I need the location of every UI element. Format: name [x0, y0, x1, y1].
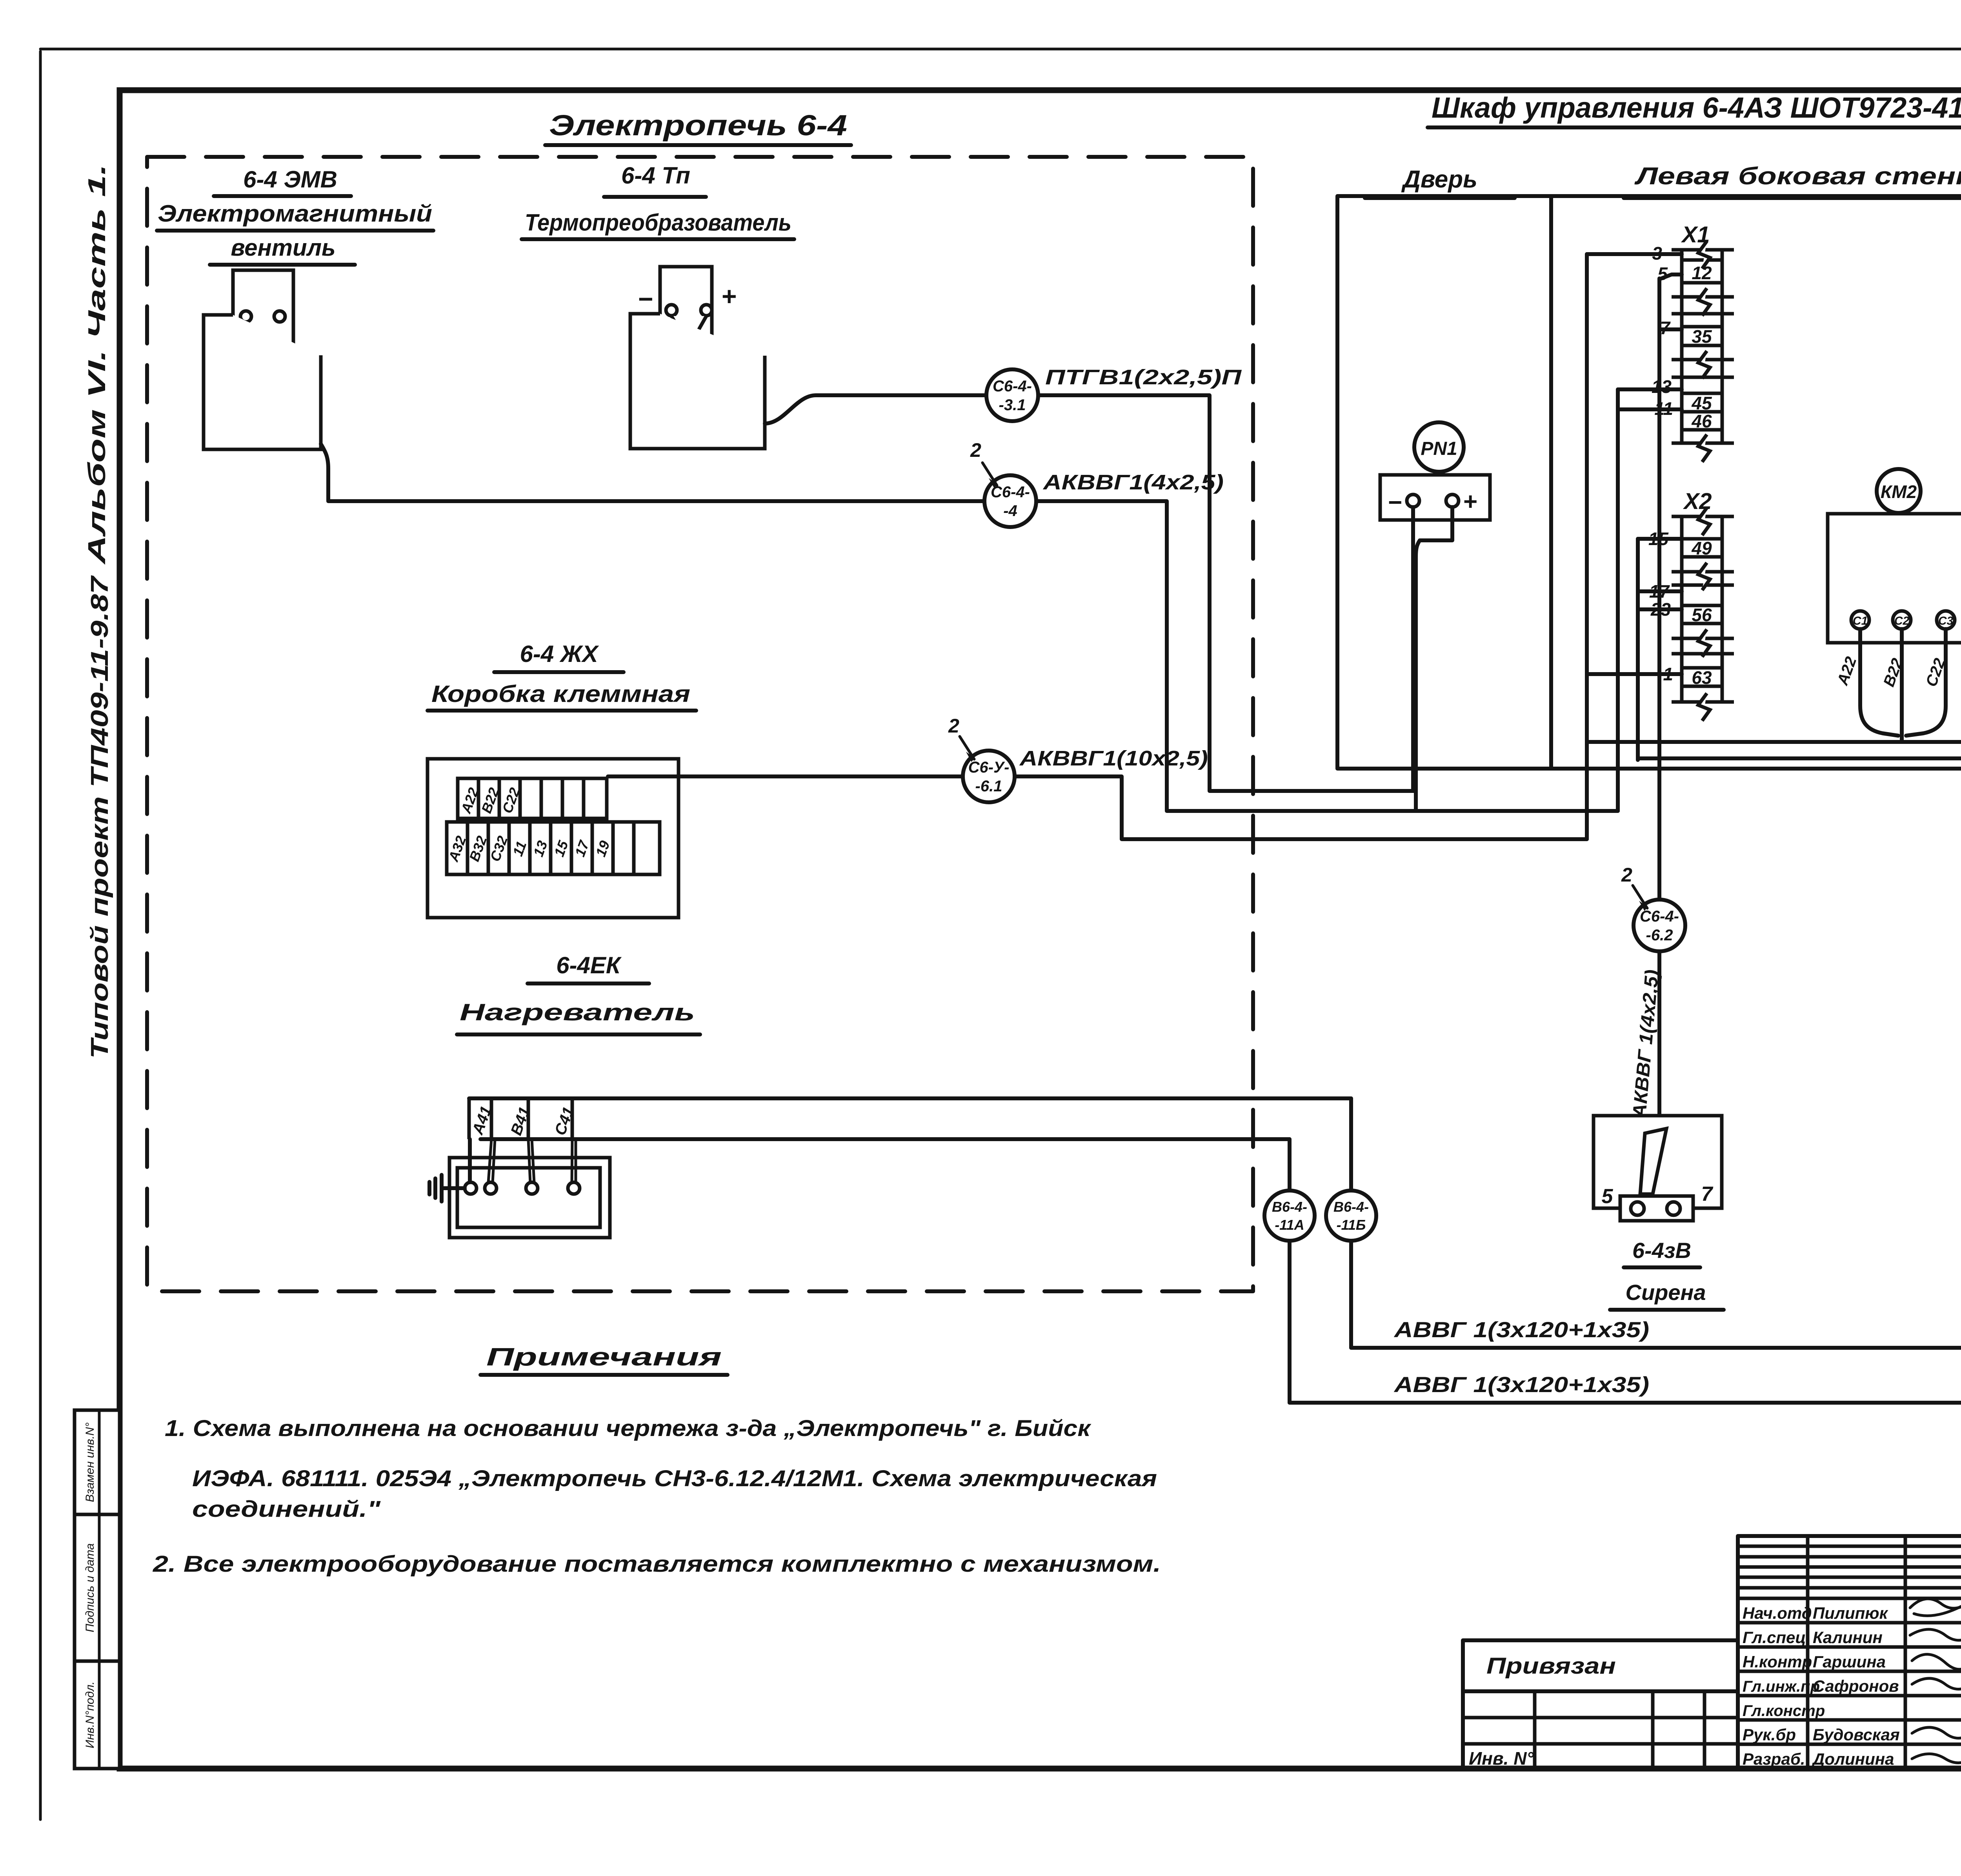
arrow 2 at С6-У-6.1: [948, 715, 975, 762]
svg-text:Привязан: Привязан: [1486, 1653, 1616, 1679]
svg-text:Долинина: Долинина: [1812, 1750, 1894, 1768]
label Термопреобразователь: [522, 209, 794, 239]
arrow 2 at С6-4-6.2: [1621, 864, 1648, 911]
PN1 terminal box: [1380, 475, 1490, 520]
wire X2 pin15 stub: [1638, 537, 1682, 541]
svg-text:56: 56: [1692, 605, 1712, 625]
svg-text:Типовой проект ТП409-11-9.87: Типовой проект ТП409-11-9.87: [86, 575, 113, 1059]
contactor КМ2 circle: [1877, 469, 1921, 513]
svg-text:Левая боковая стенка: Левая боковая стенка: [1634, 163, 1961, 190]
svg-text:Инв. N°: Инв. N°: [1469, 1748, 1534, 1769]
outer thin border left: [39, 51, 42, 1820]
svg-text:−: −: [638, 284, 653, 313]
heading Электропечь 6-4: [545, 109, 851, 145]
electromagnetic valve 6-4 ЭМВ symbol: [204, 270, 321, 449]
svg-text:Сирена: Сирена: [1626, 1280, 1706, 1305]
svg-text:2: 2: [948, 715, 959, 737]
cable circle В6-4-11Б: [1326, 1191, 1376, 1241]
svg-text:Гл.спец.: Гл.спец.: [1743, 1628, 1810, 1647]
svg-text:+: +: [721, 282, 737, 311]
svg-text:Рук.бр: Рук.бр: [1743, 1725, 1796, 1744]
svg-text:АКВВГ1(10х2,5): АКВВГ1(10х2,5): [1019, 747, 1208, 770]
label 6-4 ЖХ: [494, 641, 624, 672]
wire X1 pin11 stub: [1618, 407, 1682, 411]
wire С6-4-6.2 riser to siren: [1657, 278, 1661, 1116]
divider door / left wall: [1549, 196, 1553, 769]
long wire АВВГ1(3х120+1х35) upper: [1351, 1345, 1961, 1378]
svg-text:63: 63: [1692, 667, 1712, 688]
riser 4125: [1616, 389, 1620, 811]
svg-text:5: 5: [1602, 1185, 1614, 1208]
svg-text:6-4ЕК: 6-4ЕК: [556, 952, 622, 978]
cable circle В6-4-11А: [1264, 1191, 1315, 1241]
svg-text:6-4зВ: 6-4зВ: [1632, 1238, 1691, 1263]
КМ2 fan wires А22 В22 С22: [1834, 629, 1949, 742]
cable circle С6-4-3.1: [986, 369, 1038, 421]
cable circle С6-У-6.1: [963, 751, 1015, 802]
siren 6-4зВ: [1594, 1116, 1722, 1221]
wire X2 pin23 stub: [1638, 607, 1682, 611]
svg-text:Подпись и дата: Подпись и дата: [84, 1543, 96, 1632]
title block signatures table: [1738, 1536, 1961, 1769]
terminal strip X1: [1652, 222, 1734, 462]
wire С6-У-6.1 east run: [1015, 776, 1587, 839]
svg-text:Взамен инв.N°: Взамен инв.N°: [84, 1422, 96, 1502]
heater label cells А41 В41 С41: [469, 1098, 578, 1139]
svg-text:Гл.инж.пр: Гл.инж.пр: [1743, 1678, 1820, 1695]
wire box to С6-У-6.1: [608, 774, 963, 778]
terminal strip X2: [1648, 489, 1734, 721]
svg-text:Электромагнитный: Электромагнитный: [158, 200, 432, 227]
wire X2 pin17 stub: [1638, 589, 1682, 593]
svg-text:2. Все электрооборудование пос: 2. Все электрооборудование поставляется …: [153, 1551, 1161, 1577]
stamp box: Взамен инв.N: [75, 1410, 120, 1514]
svg-text:АВВГ 1(3х120+1х35): АВВГ 1(3х120+1х35): [1393, 1372, 1649, 1397]
svg-text:С6-У-: С6-У-: [968, 759, 1010, 776]
riser 4176: [1636, 539, 1640, 760]
wire X1 pin7 stub: [1659, 327, 1682, 331]
long wire АВВГ1(3х120+1х35) lower: [1290, 1345, 1961, 1403]
wire heater lower rail riser to В6-4-11А: [1288, 1139, 1292, 1403]
svg-text:2: 2: [970, 439, 981, 461]
svg-text:С1: С1: [1853, 614, 1868, 627]
svg-text:Будовская: Будовская: [1813, 1725, 1900, 1744]
svg-text:7: 7: [1701, 1183, 1714, 1205]
svg-text:Нагреватель: Нагреватель: [460, 999, 695, 1025]
svg-text:С2: С2: [1894, 614, 1910, 627]
svg-text:45: 45: [1691, 393, 1712, 413]
svg-text:Гл.констр: Гл.констр: [1743, 1702, 1825, 1720]
label Коробка клеммная: [427, 681, 696, 711]
svg-text:2: 2: [1621, 864, 1632, 886]
wire Тп to С6-4-3.1: [765, 395, 987, 424]
heading Примечания: [480, 1343, 728, 1375]
meter PN1: [1414, 422, 1464, 472]
cable circle С6-4-6.2: [1634, 900, 1685, 951]
wire X1 pin13 stub: [1618, 387, 1682, 391]
svg-text:Коробка клеммная: Коробка клеммная: [431, 681, 690, 707]
svg-text:49: 49: [1691, 538, 1712, 558]
svg-text:-6.2: -6.2: [1646, 927, 1673, 944]
wire X1 pin5 jog: [1659, 274, 1682, 279]
wire X1 pin3 stub: [1587, 252, 1682, 256]
bus wire y1892: [1587, 572, 1961, 742]
svg-text:Н.контр: Н.контр: [1743, 1652, 1812, 1671]
control cabinet box: [1337, 196, 1961, 769]
heading Левая боковая стенка: [1624, 163, 1961, 198]
svg-text:-11Б: -11Б: [1337, 1217, 1366, 1233]
svg-text:PN1: PN1: [1421, 438, 1457, 459]
svg-text:вентиль: вентиль: [231, 234, 335, 261]
svg-text:46: 46: [1691, 411, 1712, 431]
label 6-4зВ: [1624, 1238, 1700, 1267]
svg-text:ИЭФА. 681111. 025Э4 „Электропе: ИЭФА. 681111. 025Э4 „Электропечь СН3-6.1…: [192, 1466, 1157, 1491]
svg-text:АВВГ 1(3х120+1х35): АВВГ 1(3х120+1х35): [1393, 1317, 1649, 1342]
bus wire y1934: [1638, 756, 1961, 760]
svg-text:35: 35: [1692, 326, 1712, 347]
svg-text:Электропечь 6-4: Электропечь 6-4: [549, 109, 847, 142]
terminal box 6-4 ЖХ: [427, 759, 679, 918]
svg-text:Сафронов: Сафронов: [1813, 1677, 1899, 1695]
svg-text:Альбом VI. Часть 1.: Альбом VI. Часть 1.: [84, 164, 111, 565]
svg-text:Примечания: Примечания: [486, 1343, 722, 1371]
svg-text:12: 12: [1692, 263, 1712, 283]
heater wire rail lower: [480, 1137, 1290, 1141]
ground at heater: [429, 1175, 465, 1202]
svg-text:АКВВГ1(4х2,5): АКВВГ1(4х2,5): [1042, 471, 1224, 494]
thermo transducer 6-4 Тп symbol: [630, 267, 765, 449]
svg-text:+: +: [1463, 488, 1477, 515]
svg-text:-4: -4: [1003, 502, 1017, 520]
title block attachment table: [1463, 1640, 1738, 1769]
svg-text:С3: С3: [1938, 614, 1954, 627]
wire X2 pin1 stub: [1587, 672, 1682, 676]
wire С6-4-3.1 to PN1 minus riser: [1038, 395, 1414, 791]
label Сирена: [1610, 1280, 1724, 1310]
label Электромагнитный: [157, 200, 433, 231]
label 6-4 ЭМВ: [214, 166, 351, 196]
svg-text:6-4 ЖХ: 6-4 ЖХ: [520, 641, 599, 667]
arrow 2 at С6-4-4: [970, 439, 997, 488]
svg-text:6-4 ЭМВ: 6-4 ЭМВ: [243, 166, 337, 193]
svg-text:-6.1: -6.1: [975, 778, 1002, 795]
svg-text:13: 13: [1652, 376, 1672, 397]
dashed boundary Электропечь 6-4: [147, 157, 1253, 1291]
svg-text:Шкаф управления 6-4АЗ ШОТ9723-: Шкаф управления 6-4АЗ ШОТ9723-4174УХЛ4: [1432, 91, 1961, 124]
svg-text:-11А: -11А: [1275, 1217, 1304, 1233]
heater terminal drops: [470, 1139, 576, 1183]
label 6-4ЕК: [528, 952, 649, 983]
stamp box: Инв.N подл.: [75, 1661, 120, 1769]
svg-text:-3.1: -3.1: [999, 396, 1026, 414]
svg-text:Дверь: Дверь: [1401, 166, 1477, 193]
svg-text:КМ2: КМ2: [1881, 482, 1917, 502]
svg-text:Пилипюк: Пилипюк: [1813, 1604, 1888, 1622]
svg-text:Инв.N°подл.: Инв.N°подл.: [84, 1681, 96, 1749]
svg-text:В6-4-: В6-4-: [1333, 1199, 1369, 1215]
heater wire rail upper: [469, 1096, 1351, 1100]
wire PN1 minus down: [1411, 507, 1415, 791]
contactor КМ2 box: [1828, 514, 1961, 643]
svg-text:1. Схема выполнена на основани: 1. Схема выполнена на основании чертежа …: [165, 1416, 1091, 1441]
wire С6-4-4 to PN1 plus riser: [1036, 501, 1618, 811]
stamp box: Подпись и дата: [75, 1514, 120, 1661]
heading Дверь: [1365, 166, 1515, 198]
svg-text:Нач.отд: Нач.отд: [1743, 1604, 1812, 1622]
svg-text:Гаршина: Гаршина: [1813, 1652, 1886, 1671]
wire valve to C6-4-4: [321, 444, 985, 501]
outer thin border top: [40, 48, 1961, 51]
riser 4046: [1585, 254, 1589, 839]
svg-text:В6-4-: В6-4-: [1272, 1199, 1307, 1215]
label 6-4 Тп: [604, 162, 706, 197]
svg-text:−: −: [1388, 489, 1402, 516]
wire PN1 plus down: [1416, 507, 1452, 811]
svg-text:Разраб.: Разраб.: [1743, 1750, 1805, 1768]
heading Шкаф управления 6-4АЗ ШОТ9723-4174УХЛ4: [1428, 91, 1961, 127]
svg-text:С6-4-: С6-4-: [1640, 908, 1679, 925]
svg-text:6-4 Тп: 6-4 Тп: [621, 162, 690, 189]
svg-text:Термопреобразователь: Термопреобразователь: [525, 209, 791, 236]
cable circle С6-4-4: [984, 475, 1036, 527]
heater 6-4ЕК box: [449, 1158, 610, 1238]
svg-text:С6-4-: С6-4-: [993, 378, 1032, 395]
svg-text:Х2: Х2: [1683, 489, 1712, 514]
wire heater upper rail riser to В6-4-11Б: [1349, 1098, 1353, 1348]
label Нагреватель: [457, 999, 700, 1034]
svg-text:соединений.": соединений.": [192, 1496, 381, 1522]
label вентиль: [210, 234, 355, 265]
svg-text:Калинин: Калинин: [1813, 1628, 1883, 1647]
svg-text:ПТГВ1(2х2,5)П: ПТГВ1(2х2,5)П: [1045, 365, 1242, 389]
